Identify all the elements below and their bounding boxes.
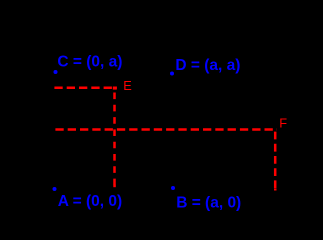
wire: horizontal dashed segment from C column to E bbox=[54, 86, 116, 89]
svg-text:B = (a, 0): B = (a, 0) bbox=[176, 194, 241, 211]
wire: vertical dashed segment from F down to B level bbox=[274, 132, 277, 191]
wire: corner blob at E bbox=[113, 87, 117, 90]
svg-text:C = (0, a): C = (0, a) bbox=[57, 53, 122, 70]
wire: vertical dashed segment from E down to AB level bbox=[113, 93, 116, 188]
node D dot bbox=[170, 72, 174, 76]
wire: tip of F vertical line bbox=[274, 189, 277, 191]
wire: tip of E vertical line bbox=[113, 185, 116, 187]
wire: horizontal dashed segment from A column to F bbox=[55, 128, 277, 131]
node A dot bbox=[53, 187, 57, 191]
svg-text:D = (a, a): D = (a, a) bbox=[175, 57, 240, 74]
node C dot bbox=[54, 70, 58, 74]
svg-text:F: F bbox=[279, 115, 287, 130]
node B dot bbox=[171, 186, 175, 190]
svg-text:A = (0, 0): A = (0, 0) bbox=[58, 193, 122, 210]
svg-text:E: E bbox=[123, 78, 132, 93]
